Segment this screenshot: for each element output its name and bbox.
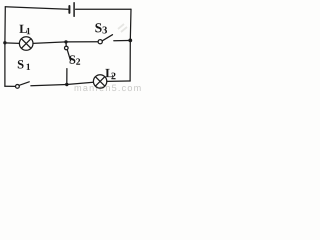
lamp L1 circle bbox=[19, 37, 33, 51]
label S2 subscript bbox=[76, 58, 80, 64]
wire: S2 stub below middle junction bbox=[65, 42, 67, 46]
wire: battery to top-right corner bbox=[76, 8, 131, 10]
wire: top run, left corner to battery bbox=[5, 7, 68, 10]
junction node: right vertical / middle wire bbox=[128, 39, 132, 43]
watermark smudge top-right bbox=[118, 24, 127, 32]
junction node: left vertical / middle wire bbox=[3, 41, 6, 44]
lamp L1 cross bbox=[21, 39, 31, 49]
label S3 subscript bbox=[103, 26, 107, 33]
label S2 letter bbox=[70, 55, 76, 63]
wire: bottom-right corner to lamp L2 bbox=[107, 80, 130, 82]
lamp L2 circle bbox=[93, 75, 106, 88]
wire: bottom junction to switch S1 bbox=[31, 85, 67, 86]
wire: right vertical bbox=[129, 9, 132, 81]
wire: switch S1 to bottom-left corner bbox=[5, 85, 16, 87]
label S1 letter bbox=[18, 60, 24, 68]
wire: S2 branch vertical to bottom wire bbox=[66, 69, 68, 85]
switch S3 blade bbox=[102, 35, 112, 41]
wire: middle run, left vertical to lamp L1 bbox=[5, 42, 20, 45]
label L1 letter bbox=[19, 25, 27, 33]
label L2 subscript bbox=[111, 73, 115, 80]
wire: middle junction to switch S3 bbox=[66, 41, 98, 43]
battery negative plate (short bar) bbox=[68, 6, 70, 13]
battery positive plate (long bar) bbox=[73, 3, 75, 17]
switch S2 blade bbox=[67, 50, 70, 61]
switch S1 blade bbox=[19, 82, 29, 86]
junction node: bottom wire / S2 branch bbox=[65, 83, 68, 86]
wire: lamp L2 to bottom junction bbox=[67, 82, 94, 84]
lamp L2 cross bbox=[95, 77, 104, 86]
watermark manfen5.com bbox=[75, 84, 141, 91]
label S1 subscript bbox=[27, 64, 30, 70]
label L2 letter bbox=[105, 69, 113, 77]
junction node: middle wire / S2 branch bbox=[64, 40, 67, 43]
label L1 subscript bbox=[27, 28, 30, 34]
switch S2 pivot circle bbox=[65, 46, 69, 50]
label S3 letter bbox=[95, 23, 101, 32]
wire: left vertical bbox=[4, 7, 6, 87]
wire: switch S3 to right vertical bbox=[114, 39, 131, 41]
switch S1 pivot circle bbox=[16, 85, 20, 89]
switch S3 pivot circle bbox=[98, 40, 102, 44]
wire: lamp L1 to middle junction bbox=[33, 42, 66, 44]
